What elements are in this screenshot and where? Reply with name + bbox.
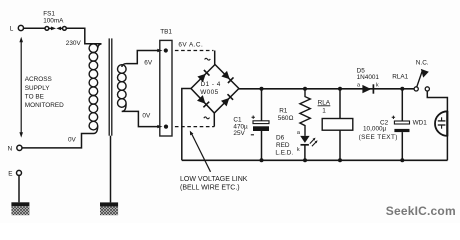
diode D4 bottom-right (221, 94, 233, 106)
svg-text:10,000µ: 10,000µ (363, 125, 387, 132)
node RLA bottom (338, 158, 342, 162)
bridge rectifier D1-4 diamond (191, 65, 239, 114)
LED D6 (300, 136, 317, 160)
transformer core (109, 38, 112, 135)
wire top positive rail (239, 88, 414, 90)
sounder WD1 (435, 111, 447, 136)
svg-text:100mA: 100mA (43, 17, 64, 24)
resistor R1 (300, 89, 310, 136)
wire contact to WD1 (427, 91, 447, 111)
svg-text:k: k (297, 147, 300, 153)
svg-text:(SEE TEXT): (SEE TEXT) (359, 134, 398, 141)
wire bridge bottom lead (213, 113, 215, 127)
svg-text:L: L (10, 25, 14, 32)
svg-text:RLA1: RLA1 (392, 74, 408, 81)
node R1 top (303, 87, 307, 91)
wire core screen to ground (110, 136, 112, 203)
node TB1 bottom dot (164, 125, 168, 129)
fuse FS1 (45, 27, 49, 31)
wire L to fuse (24, 27, 46, 29)
node LED bottom (303, 158, 307, 162)
node C1 top (260, 87, 264, 91)
svg-text:k: k (376, 83, 379, 89)
svg-text:0V: 0V (142, 112, 151, 119)
svg-text:6V: 6V (144, 59, 153, 66)
low voltage link pointer arrow (192, 134, 211, 172)
terminal L (18, 25, 23, 30)
svg-text:560Ω: 560Ω (278, 115, 294, 122)
svg-text:R1: R1 (279, 108, 288, 115)
across-supply double arrow (19, 37, 23, 138)
node C1 bottom (260, 158, 264, 162)
svg-text:C1: C1 (233, 117, 242, 124)
svg-text:a: a (357, 83, 361, 89)
secondary 0V lead to TB1 (122, 111, 158, 126)
svg-text:TB1: TB1 (160, 29, 172, 36)
svg-text:WD1: WD1 (413, 120, 428, 127)
arrowhead into TB1 top (157, 49, 162, 52)
svg-text:(BELL WIRE ETC.): (BELL WIRE ETC.) (180, 184, 240, 191)
svg-text:25V: 25V (233, 130, 245, 137)
svg-text:LOW VOLTAGE LINK: LOW VOLTAGE LINK (180, 176, 248, 183)
svg-text:FS1: FS1 (43, 10, 55, 17)
svg-text:SeekIC.com: SeekIC.com (386, 204, 456, 218)
transformer secondary winding (118, 64, 127, 112)
svg-text:ACROSS: ACROSS (25, 76, 52, 83)
svg-text:D1 - 4: D1 - 4 (201, 81, 221, 88)
transformer T1 primary winding (89, 44, 101, 134)
wire bottom rail (182, 159, 448, 161)
svg-text:SUPPLY: SUPPLY (25, 85, 50, 92)
relay coil RLA (322, 89, 353, 161)
svg-text:RED: RED (276, 142, 290, 149)
terminal N (17, 145, 22, 150)
diode D2 top-right (221, 71, 233, 83)
svg-text:MONITORED: MONITORED (25, 102, 64, 109)
arrowhead into TB1 bottom (157, 125, 162, 128)
wire N to primary 0V (22, 134, 94, 148)
svg-text:1: 1 (322, 108, 326, 115)
svg-text:W005: W005 (200, 89, 219, 96)
node RLA top (338, 87, 342, 91)
terminal E (17, 170, 22, 175)
terminal block TB1 (160, 40, 172, 136)
svg-text:L.E.D.: L.E.D. (275, 149, 293, 156)
wire fuse to transformer primary (66, 28, 101, 44)
svg-text:N: N (8, 145, 13, 152)
node TB1 top dot (164, 48, 168, 52)
AC squiggle top (205, 58, 211, 60)
ground (transformer screen) (100, 202, 118, 215)
node C2 bottom (400, 158, 404, 162)
wire WD1 to bottom rail (446, 136, 448, 160)
wire E to ground (18, 175, 20, 202)
wire bridge left vertex down (182, 89, 191, 161)
capacitor C1 (251, 89, 269, 161)
diode D1 top-left (197, 70, 209, 82)
diode D3 bottom-left (197, 95, 209, 107)
diode D5 1N4001 (362, 84, 373, 93)
node C2 top (400, 87, 404, 91)
svg-text:E: E (8, 170, 12, 177)
capacitor C2 (392, 89, 410, 161)
svg-text:1N4001: 1N4001 (357, 74, 380, 81)
svg-text:6V A.C.: 6V A.C. (178, 41, 203, 48)
AC squiggle bottom (204, 117, 210, 119)
svg-text:TO BE: TO BE (25, 94, 44, 101)
svg-text:N.C.: N.C. (416, 59, 429, 66)
wire drop to bridge top (214, 51, 216, 65)
ground (earth terminal) (11, 202, 29, 215)
secondary 6V lead to TB1 (127, 51, 158, 64)
low voltage link dashed wire bottom (175, 126, 214, 128)
low voltage link dashed wire top (175, 50, 214, 52)
svg-text:a: a (297, 130, 301, 136)
svg-text:230V: 230V (66, 40, 82, 47)
svg-text:0V: 0V (68, 136, 77, 143)
svg-text:RLA: RLA (318, 99, 331, 106)
relay contact RLA1 N.C. (414, 69, 429, 91)
svg-text:D6: D6 (276, 134, 285, 141)
